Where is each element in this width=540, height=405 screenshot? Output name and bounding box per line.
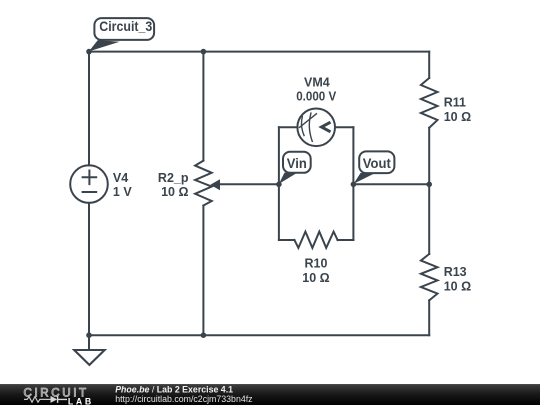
voltage source V4	[70, 165, 108, 203]
voltmeter VM4 scale arc inner	[301, 116, 304, 136]
node Vout junction	[351, 182, 357, 188]
wire Vin node up	[278, 127, 280, 184]
net flag Vout tail	[354, 173, 375, 184]
voltmeter VM4 needle	[299, 113, 317, 128]
wire Vout node up	[352, 127, 354, 184]
potentiometer wiper arrow	[210, 179, 220, 190]
svg-text:0.000 V: 0.000 V	[296, 90, 337, 104]
voltmeter VM4 scale arc outer	[309, 112, 312, 142]
svg-text:R2_p: R2_p	[158, 171, 189, 185]
resistor R10 zigzag	[294, 232, 337, 248]
wire right rail middle	[428, 128, 430, 254]
junction node top-left	[86, 49, 92, 55]
svg-text:VM4: VM4	[304, 76, 330, 90]
wire voltmeter right lead	[335, 126, 353, 128]
voltmeter VM4 circle	[297, 109, 335, 147]
net flag Vin tail	[279, 173, 297, 184]
wire voltmeter left lead	[279, 126, 298, 128]
footer bar	[0, 384, 540, 405]
net flag Circuit_3 tail	[89, 40, 120, 51]
wire R10 left lead	[279, 239, 295, 241]
junction node bottom middle	[201, 332, 207, 338]
ground symbol triangle	[74, 350, 104, 365]
net flag Circuit_3 box	[94, 18, 154, 40]
wire left rail lower	[88, 203, 90, 335]
node Vin junction	[276, 182, 282, 188]
CircuitLab logo diode	[51, 396, 58, 403]
potentiometer R2_p zigzag	[195, 161, 212, 206]
wire R10 right lead	[338, 239, 354, 241]
junction node right rail	[426, 182, 432, 188]
wire left rail upper	[88, 52, 90, 166]
svg-text:10 Ω: 10 Ω	[444, 280, 471, 294]
svg-text:Vout: Vout	[363, 155, 391, 171]
CircuitLab logo resistor-diode glyph	[24, 397, 51, 403]
wire right rail top	[428, 52, 430, 78]
junction node bottom left (ground)	[86, 332, 92, 338]
svg-text:Vin: Vin	[287, 155, 307, 171]
svg-text:http://circuitlab.com/c2cjm733: http://circuitlab.com/c2cjm733bn4fz	[115, 394, 252, 404]
svg-text:V4: V4	[113, 171, 128, 185]
ground stub	[88, 335, 90, 350]
svg-text:R13: R13	[444, 265, 467, 279]
wire right rail bottom	[428, 300, 430, 335]
wire Vout node down	[352, 184, 354, 240]
wire middle branch upper	[202, 52, 204, 161]
resistor R11 zigzag	[421, 78, 438, 128]
wire wiper to Vin node	[218, 183, 279, 185]
V4 minus sign	[83, 191, 97, 193]
wire middle branch lower	[202, 206, 204, 336]
svg-text:10 Ω: 10 Ω	[444, 110, 471, 124]
wire bottom rail	[89, 334, 429, 336]
net flag Vout box	[359, 151, 394, 173]
V4 plus sign	[83, 171, 97, 185]
wire Vin node down	[278, 184, 280, 240]
wire Vout node to right rail	[353, 183, 429, 185]
resistor R13 zigzag	[421, 254, 438, 300]
junction node top middle	[201, 49, 207, 55]
svg-text:1 V: 1 V	[113, 185, 132, 199]
wire top rail right segment	[203, 51, 429, 53]
wire top rail left segment	[89, 51, 203, 53]
svg-text:10 Ω: 10 Ω	[302, 271, 329, 285]
net flag Vin box	[283, 152, 311, 173]
svg-text:R11: R11	[444, 95, 466, 109]
svg-text:R10: R10	[305, 257, 328, 271]
voltmeter VM4 V glyph	[322, 122, 331, 132]
svg-text:Circuit_3: Circuit_3	[99, 18, 152, 34]
svg-text:LAB: LAB	[68, 396, 94, 405]
svg-text:10 Ω: 10 Ω	[161, 185, 188, 199]
